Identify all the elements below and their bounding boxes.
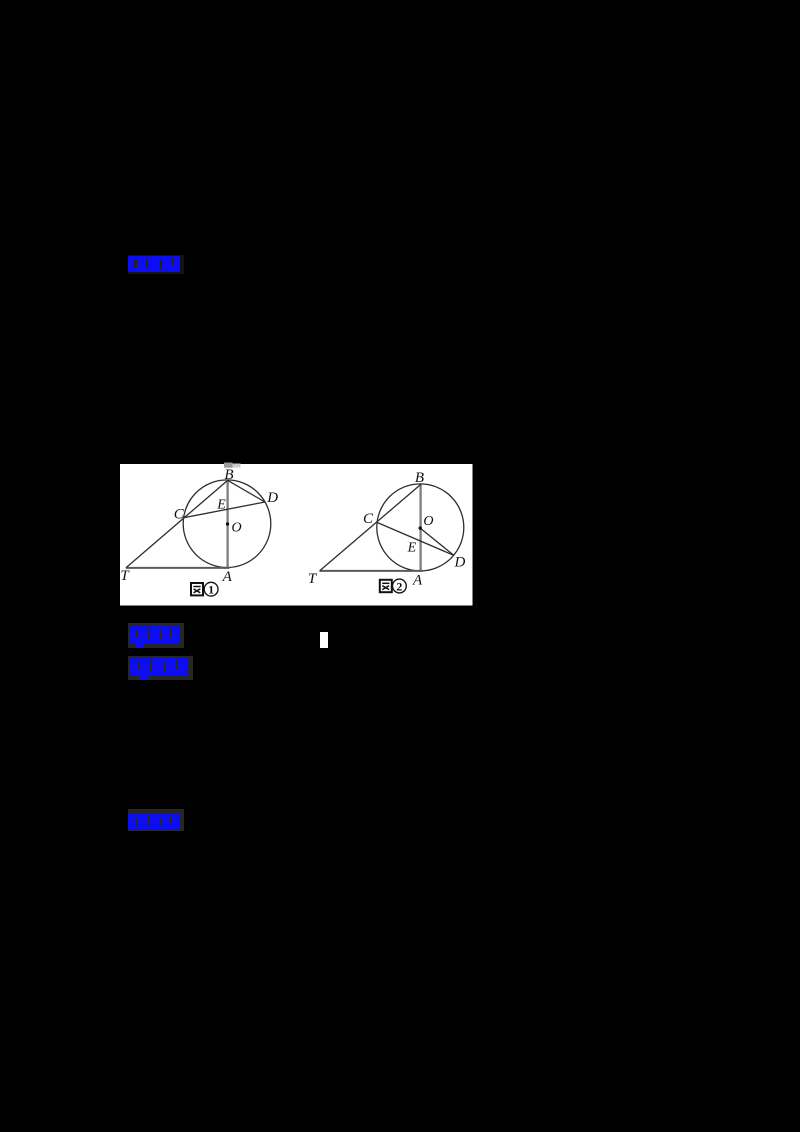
secant TB through C (figure 2) [320, 484, 421, 570]
svg-text:E: E [216, 498, 226, 513]
circle O (figure 1) [183, 480, 271, 568]
chord BD (figure 1) [228, 480, 265, 502]
caption glyph TU (figure 2) [380, 580, 392, 592]
secant TB through C (figure 1) [126, 480, 228, 568]
caption circled 1 (figure 1) [204, 582, 218, 596]
svg-text:O: O [232, 520, 242, 535]
svg-text:A: A [222, 569, 233, 585]
circle O (figure 2) [377, 484, 464, 571]
svg-text:D: D [266, 490, 278, 506]
svg-text:D: D [453, 555, 465, 571]
svg-text:C: C [174, 506, 185, 522]
svg-text:B: B [224, 467, 233, 483]
caption glyph TU (figure 1) [191, 583, 203, 595]
center dot O (figure 2) [419, 526, 422, 529]
figure panel white background [120, 464, 473, 606]
label block 2 [考点] backing [128, 623, 184, 648]
gray artifact blob above B (figure 1) [224, 463, 233, 468]
svg-text:E: E [407, 541, 417, 556]
svg-text:1: 1 [208, 583, 214, 597]
tangent line TA (figure 2) [320, 570, 424, 572]
svg-text:A: A [412, 572, 423, 588]
svg-text:O: O [423, 514, 433, 529]
chord CD (figure 2) [376, 522, 454, 555]
label block 1 [答案] backing [128, 255, 184, 274]
label block 4 [解答] blue text [128, 814, 179, 829]
diameter BA (figure 1) [226, 480, 228, 567]
white caret rectangle [320, 632, 328, 648]
chord CD (figure 1) [184, 502, 265, 518]
label block 3 [分析] blue text [129, 658, 187, 675]
label block 2 [考点] blue text [129, 626, 179, 644]
svg-text:2: 2 [396, 579, 402, 593]
radius OD (figure 2) [420, 528, 454, 555]
label block 1 [答案] blue text [128, 256, 180, 272]
center dot O (figure 1) [226, 522, 229, 525]
tangent line TA (figure 1) [126, 567, 230, 569]
label block 3 [分析] backing [128, 656, 193, 680]
svg-text:B: B [415, 470, 424, 486]
svg-text:C: C [363, 511, 374, 527]
diameter BA (figure 2) [419, 485, 421, 571]
caption circled 2 (figure 2) [393, 579, 407, 593]
label block 4 [解答] backing [128, 809, 184, 831]
